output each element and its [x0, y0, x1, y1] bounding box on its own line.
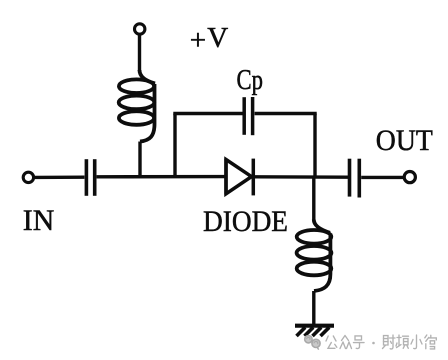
- wire: +V terminal to inductor L1: [138, 35, 141, 71]
- terminal +V (open circle): [135, 24, 145, 34]
- svg-text:OUT: OUT: [376, 124, 433, 157]
- wire: Cp branch top left horizontal: [173, 112, 242, 115]
- ground: [295, 326, 334, 336]
- svg-text:+: +: [190, 24, 206, 56]
- wire: C1 to diode anode (main line, passes L1 and Cp junctions): [97, 175, 226, 179]
- inductor L1 (bias choke, top): [119, 70, 155, 142]
- wire: Cp branch left vertical: [173, 114, 176, 177]
- watermark logo: [305, 336, 320, 350]
- terminal IN (open circle): [23, 172, 33, 182]
- capacitor C2 (output DC block): [350, 159, 360, 198]
- wire: L1 bottom lead to main line: [138, 142, 141, 177]
- char 馆: [425, 335, 437, 349]
- svg-text:V: V: [207, 22, 228, 54]
- watermark text 公众号·射频小馆: [326, 335, 436, 349]
- char 射: [383, 335, 396, 349]
- terminal OUT (open circle): [404, 172, 415, 183]
- wire: Cp branch top right horizontal: [255, 112, 317, 115]
- char 公: [326, 336, 337, 348]
- svg-text:Cp: Cp: [237, 65, 264, 96]
- diode D1 (series PIN diode): [226, 159, 253, 196]
- svg-text:IN: IN: [23, 204, 55, 237]
- wire: L2 to ground: [312, 291, 315, 325]
- char 号: [354, 336, 365, 349]
- middle dot: [372, 342, 375, 345]
- wire: C2 to OUT terminal: [361, 176, 403, 179]
- wire: junction down to inductor L2: [312, 177, 315, 220]
- capacitor Cp (bypass): [244, 97, 252, 135]
- wire: diode cathode to output junction: [255, 175, 348, 179]
- inductor L2 (shunt, bottom): [297, 220, 332, 292]
- wire: IN terminal to capacitor C1: [35, 175, 85, 179]
- char 众: [340, 336, 352, 349]
- capacitor C1 (input DC block): [86, 159, 94, 196]
- wire: Cp branch right vertical down to main line: [313, 114, 316, 177]
- char 小: [411, 335, 422, 349]
- svg-text:DIODE: DIODE: [203, 205, 288, 238]
- char 频: [396, 335, 409, 348]
